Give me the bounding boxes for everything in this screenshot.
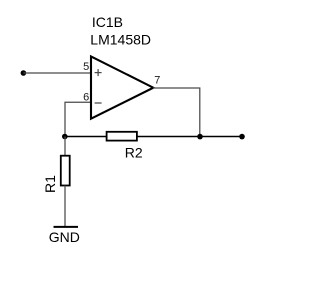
node B junction dot <box>197 134 203 140</box>
wire node A to R1 <box>64 137 66 156</box>
node IN terminal dot <box>21 70 27 76</box>
wire R2 to node OUT <box>137 136 242 138</box>
svg-text:IC1B: IC1B <box>92 14 123 30</box>
svg-text:5: 5 <box>83 61 89 73</box>
resistor R1 <box>61 156 70 186</box>
svg-text:6: 6 <box>83 91 89 103</box>
svg-text:R1: R1 <box>42 175 58 193</box>
wire input to pin 5 <box>23 72 90 74</box>
op-amp plus input marker <box>95 69 102 76</box>
svg-text:LM1458D: LM1458D <box>90 31 151 47</box>
wire R1 to ground <box>64 186 66 227</box>
ground symbol bar <box>54 226 79 228</box>
wire node A to R2 <box>65 136 107 138</box>
node OUT terminal dot <box>239 134 245 140</box>
wire output pin 7 <box>153 88 200 137</box>
svg-text:R2: R2 <box>125 145 143 161</box>
wire pin 6 to node A <box>65 102 90 136</box>
svg-text:GND: GND <box>49 229 80 245</box>
op-amp minus input marker <box>95 102 102 104</box>
op-amp U1 triangle body <box>91 56 153 118</box>
resistor R2 <box>107 132 137 141</box>
svg-text:7: 7 <box>154 75 160 87</box>
node A junction dot <box>62 134 68 140</box>
